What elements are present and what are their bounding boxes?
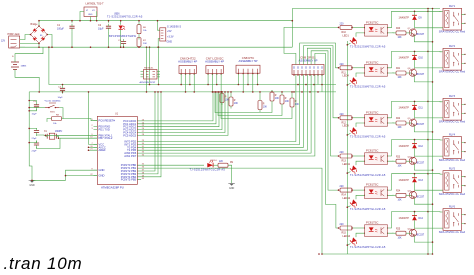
indicator LED LED4 [343, 75, 359, 86]
wires pull-up tops to rail [221, 91, 223, 93]
wire R to opto channel 2 [352, 67, 365, 69]
indicator LED LED9 [343, 125, 359, 136]
svg-text:2: 2 [91, 125, 92, 127]
svg-text:12V: 12V [1, 41, 6, 43]
resistor R24 10K channel 5 [396, 191, 406, 202]
wire R to opto channel 3 [352, 117, 365, 119]
wire collector node channel 6 [414, 220, 416, 228]
svg-text:R: R [263, 104, 265, 106]
wires connector pins down to bus [180, 74, 182, 85]
svg-text:D9: D9 [419, 17, 423, 20]
svg-text:LED10: LED10 [210, 160, 217, 162]
svg-text:HS MC6L: HS MC6L [144, 68, 154, 70]
svg-text:ASSEMBLY 5P: ASSEMBLY 5P [238, 59, 257, 63]
power LED part number label [107, 14, 143, 19]
svg-text:*Tactile 1k0(680): *Tactile 1k0(680) [44, 100, 61, 103]
svg-text:SW1: SW1 [50, 112, 56, 114]
svg-text:AIN1 PD7: AIN1 PD7 [124, 154, 136, 158]
wire R9 to ground [228, 165, 232, 183]
wire diode top to +5V channel 6 [414, 212, 416, 216]
svg-text:10µF: 10µF [32, 114, 38, 116]
svg-text:AREF: AREF [99, 148, 107, 152]
optocoupler U4 PC817SC [365, 110, 388, 126]
relay RLY5 SRA-05VDC-CL [439, 168, 466, 197]
svg-text:1N4007P: 1N4007P [399, 17, 410, 20]
diode D11 1N4007P [399, 105, 424, 110]
svg-text:R20: R20 [396, 28, 401, 30]
svg-text:RLY2: RLY2 [449, 45, 456, 48]
relay RLY6 SRA-05VDC-CL [439, 205, 466, 234]
wire base resistor to transistor channel 5 [406, 194, 412, 196]
rail B right side [432, 9, 434, 255]
svg-text:PC817SC: PC817SC [366, 183, 378, 187]
wire cap C5 to XTAL1 line [37, 134, 98, 136]
pull-up resistors near connectors [220, 90, 299, 112]
svg-text:SRA-05VDC-CL Red: SRA-05VDC-CL Red [439, 192, 466, 196]
wire LED to ground rail channel 3 [347, 133, 350, 135]
svg-text:SRA-05VDC-CL Red: SRA-05VDC-CL Red [439, 158, 466, 162]
svg-text:10µF: 10µF [58, 97, 64, 99]
wire C3 stubs [123, 46, 125, 47]
ground symbol left [29, 181, 36, 187]
wire reset node to MCU [63, 119, 97, 121]
svg-text:220: 220 [340, 113, 345, 116]
bridge rectifier B1 [31, 23, 48, 43]
svg-text:R: R [234, 100, 236, 102]
wire +12V rail up to top distribution rail [291, 9, 293, 48]
svg-text:SRA-05VDC-CL Red: SRA-05VDC-CL Red [439, 70, 466, 74]
bottom ground rail [322, 253, 433, 255]
wire opto emitter to base resistor channel 3 [388, 121, 394, 124]
wire opto cathode to indicator LED channel 1 [356, 33, 365, 37]
resistor R14 220 channel 5 [340, 185, 353, 197]
svg-text:R8: R8 [56, 114, 60, 116]
wire C4 stubs to rails [62, 85, 64, 86]
resistor R8 10k pull-up [52, 114, 62, 125]
wire header to rails [158, 21, 160, 31]
svg-text:20: 20 [90, 146, 92, 148]
svg-text:PWR Jack: PWR Jack [8, 32, 21, 36]
svg-text:220: 220 [340, 223, 345, 226]
part HS MC6L AZ941MV [140, 68, 161, 84]
svg-text:10K: 10K [295, 104, 300, 106]
indicator LED LED14 [343, 235, 359, 246]
wire base resistor to transistor channel 4 [406, 160, 412, 162]
transistor Q7 BC337 [408, 28, 425, 36]
top distribution rail to relays [292, 8, 440, 10]
svg-text:100µF: 100µF [57, 27, 64, 30]
wire diode top to +5V channel 4 [414, 140, 416, 144]
svg-text:10K: 10K [234, 103, 239, 105]
svg-text:D13: D13 [419, 179, 424, 182]
svg-text:R24: R24 [396, 191, 401, 193]
svg-text:21: 21 [90, 149, 92, 151]
svg-text:GND: GND [88, 14, 93, 16]
resistor R25 10K channel 6 [396, 228, 406, 239]
wire emitter to rail channel 2 [414, 75, 432, 82]
diode D12 1N4007P [399, 144, 424, 149]
svg-text:TJ-S2512SW6TGLC2R-A5: TJ-S2512SW6TGLC2R-A5 [350, 173, 386, 177]
junction dots connector bus [180, 84, 322, 93]
wire collector node channel 4 [414, 148, 416, 156]
ground symbol LED10 [228, 184, 235, 190]
+5V rail A right side [427, 9, 429, 255]
wire collector node channel 1 [414, 20, 416, 28]
svg-text:10: 10 [90, 137, 92, 139]
svg-text:ATMEGA328P PU: ATMEGA328P PU [101, 186, 124, 190]
svg-text:R: R [275, 95, 277, 97]
svg-text:40: 40 [142, 178, 144, 180]
svg-text:PC817SC: PC817SC [366, 149, 378, 153]
wire LED to ground rail channel 1 [347, 43, 350, 45]
svg-text:TJ-S2512SW6TGLC2R-A5: TJ-S2512SW6TGLC2R-A5 [350, 45, 386, 49]
wire R7 bottom stub [138, 46, 140, 49]
svg-text:PC817SC: PC817SC [366, 60, 378, 64]
svg-text:8: 8 [91, 169, 92, 171]
wire LED to ground rail channel 4 [347, 172, 350, 174]
voltage regulator IC1 LM7805 [84, 3, 104, 19]
transistor Q11 BC337 [408, 191, 425, 199]
wire left rail to GND [29, 152, 32, 180]
wire base resistor to transistor channel 3 [406, 122, 412, 124]
wire jack pin2 to bridge bottom [20, 44, 39, 48]
svg-text:GND: GND [99, 168, 105, 172]
svg-text:PC817SC: PC817SC [366, 110, 378, 114]
svg-text:220: 220 [340, 151, 345, 154]
svg-text:LED11: LED11 [343, 163, 351, 166]
diode D9 1N4007P [399, 15, 423, 20]
svg-text:BC337: BC337 [417, 233, 425, 236]
svg-text:SRA-05VDC-CL Red: SRA-05VDC-CL Red [439, 230, 466, 234]
diode D13 1N4007P [399, 178, 424, 183]
crystal X1 16MHz [44, 131, 63, 139]
wire switch to reset node [59, 108, 63, 119]
wire opto cathode to indicator LED channel 6 [356, 233, 365, 237]
svg-text:7: 7 [91, 143, 92, 145]
resistor R7 20K [137, 38, 147, 47]
relay RLY3 SRA-05VDC-CL [439, 95, 466, 124]
resistor R13 220 channel 4 [340, 151, 353, 163]
svg-text:BC337: BC337 [417, 123, 425, 126]
wire emitter to rail channel 5 [414, 198, 432, 205]
wire collector node channel 5 [414, 182, 416, 190]
svg-text:1N4007P: 1N4007P [399, 217, 410, 220]
svg-text:PCINT5 PB5: PCINT5 PB5 [121, 178, 137, 182]
wire +5V to relay coil channel 1 [428, 10, 443, 12]
wire emitter to rail channel 1 [414, 35, 432, 42]
CN9 upper pin row [294, 66, 322, 69]
second mid rail with +5V feed [49, 47, 336, 84]
wire LED to ground rail channel 2 [347, 83, 350, 85]
wire jack to bridge [20, 35, 31, 40]
resistor R20 10K channel 1 [396, 28, 406, 39]
wire opto emitter to base resistor channel 2 [388, 71, 394, 74]
wire emitter to rail channel 4 [414, 164, 432, 171]
svg-text:R21: R21 [396, 68, 401, 70]
wire regulator GND down [90, 18, 92, 21]
spice directive .tran 10m [4, 254, 83, 274]
wire +5V to relay coil channel 6 [428, 211, 443, 213]
wire LED to ground rail channel 5 [347, 206, 350, 208]
svg-text:10K: 10K [398, 37, 403, 39]
indicator LED LED11 [343, 163, 359, 174]
indicator LED LED1 [343, 35, 359, 46]
svg-text:20K: 20K [143, 43, 147, 45]
wire rail to regulator VI [80, 12, 84, 21]
transistor Q12 BC337 [408, 228, 425, 236]
svg-text:RLY1: RLY1 [449, 5, 456, 8]
svg-text:SRA-05VDC-CL Red: SRA-05VDC-CL Red [439, 120, 466, 124]
diode D10 1N4007P [399, 55, 424, 60]
optocoupler U3 PC817SC [365, 60, 388, 76]
svg-text:10µF: 10µF [98, 27, 104, 30]
wire opto collector to +5V channel 1 [388, 11, 429, 27]
connector CN7 LCD I2C [205, 56, 224, 74]
svg-text:D10: D10 [419, 57, 424, 60]
svg-text:GND: GND [99, 174, 105, 178]
wire battery minus [15, 70, 39, 92]
svg-text:10K: 10K [398, 200, 403, 202]
svg-text:R25: R25 [396, 228, 401, 230]
crystal load capacitor C6 22pF [32, 141, 40, 153]
svg-text:16MHz: 16MHz [55, 131, 63, 133]
connector SV1 power header [160, 26, 182, 44]
capacitor C4 10uF decoupling between rails [58, 86, 66, 99]
relay RLY2 SRA-05VDC-CL [439, 45, 466, 73]
wire MCU PB1 to bottom ground rail [141, 168, 322, 254]
svg-text:PD1 TXD: PD1 TXD [99, 127, 110, 131]
wire base resistor to transistor channel 2 [406, 72, 412, 74]
crystal pin stubs [46, 134, 48, 137]
svg-text:22pF: 22pF [32, 151, 38, 153]
svg-text:LED12: LED12 [343, 197, 351, 200]
diode D14 1N4007P [399, 216, 424, 221]
wire opto collector to +5V channel 4 [388, 140, 429, 156]
LED cathode ground rail right side [346, 41, 348, 254]
resistor R6 10k [137, 25, 147, 34]
wire LED to ground rail channel 6 [347, 244, 350, 246]
svg-text:1N4007P: 1N4007P [399, 145, 410, 148]
wire battery plus [15, 47, 43, 62]
svg-text:LED9: LED9 [343, 125, 350, 128]
svg-text:LED1: LED1 [343, 35, 350, 38]
wire opto collector to +5V channel 6 [388, 212, 429, 228]
svg-text:1N4007P: 1N4007P [399, 57, 410, 60]
wire cap C6 to XTAL2 line [37, 138, 98, 148]
wire MCU GND pins [32, 170, 97, 180]
capacitor C2 10uF [98, 21, 111, 48]
svg-text:D14: D14 [419, 217, 424, 220]
nest wires CN9 top to channel drivers [284, 27, 339, 64]
wire opto cathode to indicator LED channel 3 [356, 123, 365, 127]
svg-text:D11: D11 [419, 107, 424, 110]
wire bridge right to ground rail [47, 35, 52, 48]
connector CN9 GPIO [292, 55, 324, 75]
svg-text:10K: 10K [225, 100, 230, 102]
resistor R21 10K channel 2 [396, 68, 406, 79]
wire rail to switch [29, 107, 45, 109]
wires MCU ADC pins to bus [141, 92, 213, 121]
microcontroller U1 ATMEGA328P [90, 113, 144, 190]
wire VCC AVCC AREF to +5V [89, 92, 98, 144]
wire opto emitter to base resistor channel 5 [388, 194, 394, 197]
svg-text:1MB5: 1MB5 [21, 66, 27, 68]
svg-text:+: + [12, 55, 14, 59]
ground rail bottom of power section [20, 46, 293, 48]
connector CN8 RTC [236, 56, 260, 74]
svg-text:10k: 10k [53, 123, 57, 125]
svg-text:R7: R7 [143, 40, 147, 42]
resistor R10 220 channel 1 [340, 22, 353, 34]
svg-text:PC817SC: PC817SC [366, 221, 378, 225]
resistor R11 220 channel 2 [340, 63, 353, 75]
svg-text:TJ-S2512SW6TGLC2R-A5: TJ-S2512SW6TGLC2R-A5 [350, 207, 386, 211]
svg-text:10K: 10K [263, 107, 268, 109]
svg-text:10K: 10K [398, 127, 403, 129]
wire opto collector to +5V channel 2 [388, 51, 429, 67]
svg-text:PB7 XTAL2: PB7 XTAL2 [99, 136, 113, 140]
transistor Q8 BC337 [408, 68, 425, 76]
relay RLY1 SRA-05VDC-CL [439, 5, 466, 33]
indicator LED LED10 [207, 160, 217, 168]
wire regulator VO to +5V rail [96, 12, 98, 21]
optocoupler U7 PC817SC [365, 221, 388, 237]
svg-text:RLY5: RLY5 [449, 168, 456, 171]
svg-text:AZ941MV 2X3P: AZ941MV 2X3P [140, 81, 156, 84]
svg-text:LED4: LED4 [343, 75, 350, 78]
wire diode top to +5V channel 5 [414, 174, 416, 178]
svg-text:D12: D12 [419, 145, 424, 148]
transistor Q9 BC337 [408, 118, 425, 126]
power jack J1 [1, 32, 20, 48]
svg-text:1N4007P: 1N4007P [399, 107, 410, 110]
svg-text:R: R [285, 98, 287, 100]
svg-text:1: 1 [91, 119, 92, 121]
svg-text:TJ-S2512SW6TGLC2R-A5: TJ-S2512SW6TGLC2R-A5 [350, 85, 386, 89]
svg-text:PC817SC: PC817SC [366, 20, 378, 24]
wire diode top to +5V channel 3 [414, 101, 416, 105]
svg-text:BC337: BC337 [417, 196, 425, 199]
svg-text:GND: GND [229, 187, 235, 190]
wire MCU to LED10 [141, 164, 204, 166]
wire +5V to relay coil channel 3 [428, 100, 443, 102]
resistor R9 220 [218, 161, 234, 167]
svg-text:R22: R22 [396, 118, 401, 120]
svg-text:VO: VO [92, 10, 95, 12]
svg-text:R23: R23 [396, 156, 401, 158]
capacitor C1 100uF [57, 21, 75, 48]
svg-text:10K: 10K [275, 98, 280, 100]
wire C6 to rail [29, 141, 36, 143]
wire base resistor to transistor channel 6 [406, 232, 412, 234]
svg-text:R9: R9 [230, 162, 234, 164]
connector CN6 DHT22 [178, 56, 197, 74]
signal lines below bus to pull-up bottoms [215, 92, 272, 113]
svg-text:VI: VI [86, 10, 88, 12]
svg-text:Bridge: Bridge [31, 23, 39, 26]
wire R6 stubs [138, 21, 140, 25]
svg-text:TJ-S2512SW6TGLC2R-A5: TJ-S2512SW6TGLC2R-A5 [350, 135, 386, 139]
svg-text:10K: 10K [285, 101, 290, 103]
svg-text:BC337: BC337 [417, 73, 425, 76]
svg-text:22: 22 [90, 174, 92, 176]
svg-text:PC5 ADC5: PC5 ADC5 [123, 133, 136, 137]
svg-text:RLY3: RLY3 [449, 95, 456, 98]
wire R to opto channel 5 [352, 189, 365, 191]
svg-text:+5V: +5V [167, 30, 172, 33]
wire opto cathode to indicator LED channel 4 [356, 161, 365, 165]
svg-text:3: 3 [91, 128, 92, 130]
decoupling capacitor C5 10uF [32, 101, 40, 116]
svg-text:TJ-S2512SW6TGLC2R-A5: TJ-S2512SW6TGLC2R-A5 [350, 245, 386, 249]
optocoupler U2 PC817SC [365, 20, 388, 36]
power LED LED13 [119, 21, 126, 48]
svg-text:C5: C5 [33, 101, 37, 103]
wire R to opto channel 1 [352, 26, 365, 28]
wire opto emitter to base resistor channel 4 [388, 160, 394, 163]
junction dots crystal area [28, 100, 59, 144]
transistor Q10 BC337 [408, 156, 425, 164]
svg-text:BPCP06SBF4TGRW: BPCP06SBF4TGRW [109, 34, 136, 38]
svg-text:R6: R6 [143, 27, 147, 29]
wire diode top to +5V channel 2 [414, 51, 416, 55]
wire emitter to rail channel 6 [414, 236, 432, 243]
svg-text:1N4007P: 1N4007P [399, 179, 410, 182]
crystal load capacitor C5 22pF [32, 128, 40, 140]
svg-text:220: 220 [340, 63, 345, 66]
wires MCU PD pins to CN9 pins [141, 75, 296, 142]
resistor R22 10K channel 3 [396, 118, 406, 129]
resistor R12 220 channel 3 [340, 113, 353, 125]
svg-text:+3.3V: +3.3V [167, 35, 174, 38]
relay RLY4 SRA-05VDC-CL [439, 133, 466, 162]
wire diode top to +5V channel 1 [414, 11, 416, 15]
svg-text:S 1X05/90 S: S 1X05/90 S [167, 26, 181, 29]
wire C4 to rail [29, 101, 36, 103]
junction dots power rails [30, 20, 293, 48]
wire bridge top to +12V rail [39, 21, 292, 26]
svg-text:RLY6: RLY6 [449, 205, 456, 208]
left ground rail vertical [28, 92, 30, 152]
wire R to opto channel 6 [352, 227, 365, 229]
wires MCU PB2-PB4 up to bus [141, 92, 155, 171]
capacitor C3 [118, 39, 126, 47]
svg-text:10k: 10k [143, 30, 147, 32]
wire opto collector to +5V channel 5 [388, 174, 429, 190]
svg-text:10K: 10K [398, 77, 403, 79]
wire R to opto channel 4 [352, 155, 365, 157]
optocoupler U5 PC817SC [365, 149, 388, 165]
svg-text:9: 9 [91, 134, 92, 136]
reset switch SW1 [44, 100, 61, 114]
svg-text:22pF: 22pF [32, 138, 38, 140]
wire +5V to relay coil channel 2 [428, 50, 443, 52]
resistor R23 10K channel 4 [396, 156, 406, 167]
battery BAT1 [11, 55, 27, 70]
svg-text:ASSEMBLY 4P: ASSEMBLY 4P [205, 60, 224, 64]
vertical feed lines from power section [146, 47, 148, 92]
wire +5V to relay coil channel 5 [428, 173, 443, 175]
wire R8 left stub [47, 119, 52, 122]
svg-text:TJ-S2512SW6TGLC2R-A5: TJ-S2512SW6TGLC2R-A5 [107, 15, 143, 19]
wire LED10 to R9 [213, 164, 218, 166]
wire C5 to rail [29, 127, 36, 129]
svg-text:PC6 RESET#: PC6 RESET# [99, 119, 116, 123]
svg-text:220: 220 [340, 185, 345, 188]
optocoupler U6 PC817SC [365, 183, 388, 199]
svg-text:U1: U1 [115, 113, 119, 116]
resistor R15 220 channel 6 [340, 223, 353, 235]
